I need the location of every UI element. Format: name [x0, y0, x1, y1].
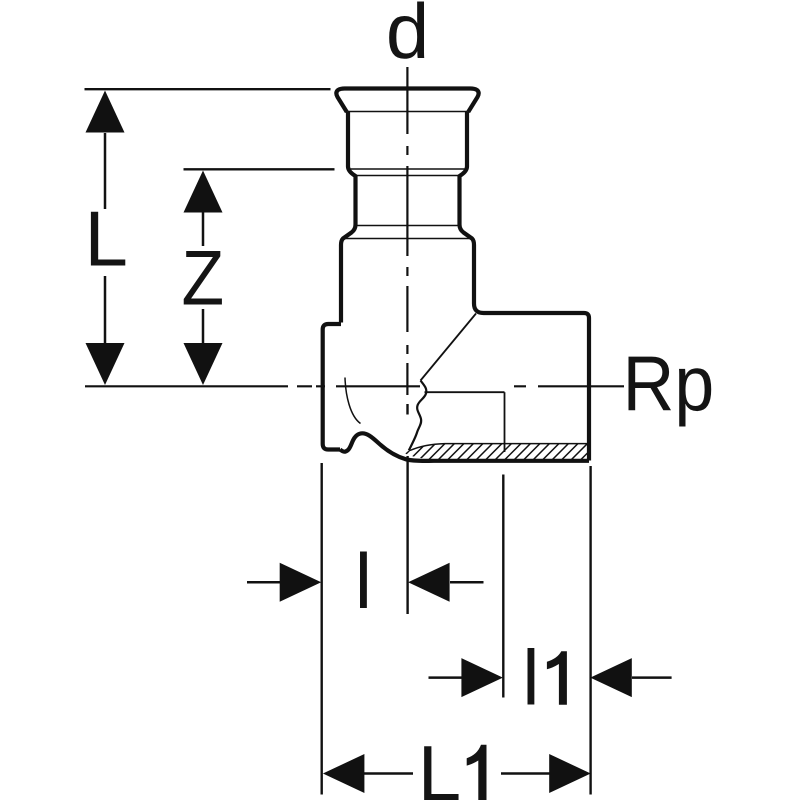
thread end line [504, 392, 506, 452]
arrow l1 right-pointing-left [590, 658, 632, 697]
svg-text:L: L [85, 194, 128, 282]
inner diagonal transition line [421, 314, 477, 381]
svg-text:Z: Z [182, 233, 225, 321]
svg-text:Rp: Rp [623, 339, 715, 427]
extension line flange left [321, 463, 323, 795]
flange [323, 324, 341, 450]
socket right outline and outlet body [460, 112, 590, 461]
vertical centerline lower extension (dimension l right) [406, 404, 409, 614]
arrow l right-pointing-left [408, 563, 450, 602]
extension line Z reference [184, 168, 335, 170]
svg-text:l: l [522, 634, 539, 722]
extension line top (L reference) [85, 88, 331, 90]
flare lines [344, 226, 472, 239]
vertical centerline [406, 67, 408, 395]
arrow Z up [184, 171, 223, 213]
rim bottom line [348, 111, 467, 113]
arrow Z down [184, 343, 223, 385]
thread hatch band top line [410, 444, 587, 451]
elbow inner bore curve [345, 378, 361, 424]
dimension l1 tails [429, 676, 672, 679]
dimension l tails [247, 581, 484, 584]
elbow outer curve and bottom edge [340, 433, 589, 461]
extension line thread end [502, 475, 504, 698]
svg-text:d: d [386, 0, 429, 75]
svg-text:l: l [355, 537, 372, 625]
dimension L1 line [364, 772, 550, 775]
socket left outline [341, 112, 356, 323]
arrow l left-pointing-right [280, 563, 322, 602]
svg-text:L: L [418, 729, 461, 800]
thread bore line [425, 391, 505, 393]
extension line outlet right [589, 466, 591, 795]
horizontal centerline [85, 385, 624, 387]
arrow L1 pointing-right [549, 754, 591, 793]
arrow L1 pointing-left [323, 754, 365, 793]
dimension Z line [202, 212, 205, 343]
arrow l1 left-pointing-right [461, 658, 503, 697]
break wavy line [409, 381, 427, 451]
neck groove lines [350, 169, 465, 176]
press bead rim [336, 89, 478, 113]
arrow L up [86, 91, 125, 133]
dimension L line [104, 133, 107, 344]
arrow L down [86, 343, 125, 385]
